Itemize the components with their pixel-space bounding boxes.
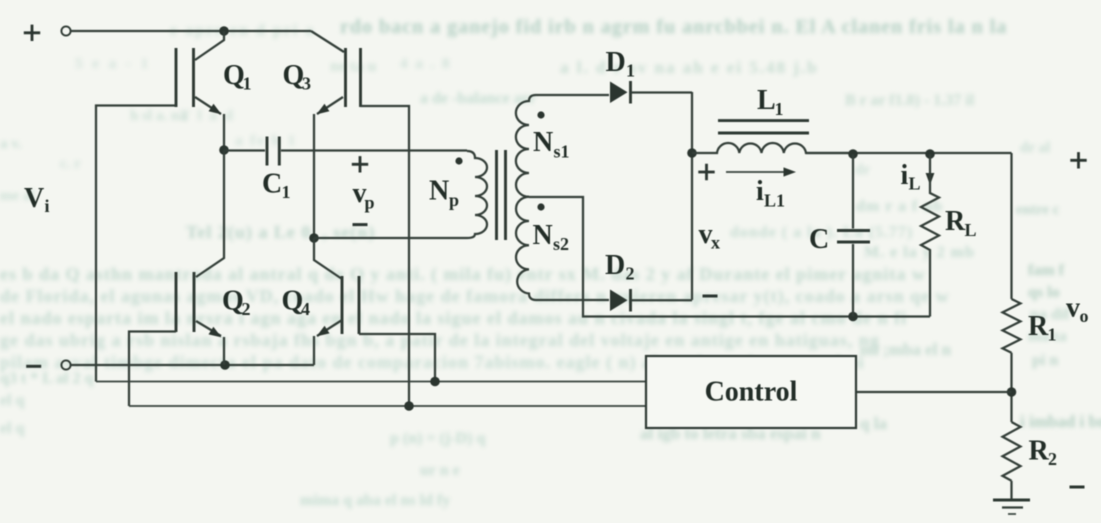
label D2 [605,250,635,284]
label Q3 [283,60,312,94]
svg-text:Q: Q [223,60,245,91]
node primary bottom junction [309,233,319,243]
label C1 [262,169,291,203]
svg-text:2: 2 [1048,449,1057,469]
svg-text:N: N [429,176,449,207]
label R1 [1028,311,1057,345]
resistor R1 [1003,299,1021,353]
svg-text:Q: Q [283,60,305,91]
label Q1 [223,60,252,94]
transformer core [497,150,506,240]
node feedback junction R1 R2 [1007,387,1017,397]
terminal input negative [61,360,70,369]
diode D2 [610,289,692,312]
wire feedback control to divider [856,391,1012,393]
wire gate lead Q4 to control line A [359,334,435,382]
svg-text:1: 1 [282,182,291,202]
wire rectifier output vertical vx [691,92,693,300]
label RL [945,206,977,240]
capacitor C [837,154,870,317]
label Np [429,176,459,211]
terminal input positive [61,26,70,35]
svg-text:L: L [909,174,921,194]
diode D1 [610,81,692,104]
resistor R2 [1003,422,1021,481]
svg-text:L1: L1 [764,191,785,211]
svg-text:3: 3 [302,74,311,94]
polarity dot Ns1 [537,111,544,118]
svg-text:N: N [533,127,553,158]
wire gate lead Q1 to control line A [96,106,176,382]
control block U1 [646,356,856,428]
wire secondary top to D1 anode [536,94,609,96]
svg-text:i: i [45,196,50,216]
wire gate lead Q2 to control line B [129,332,176,407]
label vp [353,178,375,213]
wire bottom bridge rail [71,364,314,366]
wire gate lead Q3 to control line B [361,106,410,406]
svg-text:R: R [1028,311,1049,342]
svg-text:1: 1 [243,74,252,94]
wire center tap to return rail [529,197,930,317]
svg-text:1: 1 [626,61,635,81]
node vx junction [687,148,697,158]
svg-text:L: L [757,85,776,116]
label Ns2 [533,220,570,254]
label + vx polarity [698,164,714,180]
label + input polarity top-left [24,25,40,41]
capacitor C1 [224,137,467,166]
svg-text:s2: s2 [553,234,569,254]
transistor Q2 [176,150,224,365]
wire top rail [71,30,311,32]
transformer secondary winding Ns2 [516,197,536,300]
svg-text:4: 4 [301,299,310,319]
svg-text:s1: s1 [554,142,570,162]
svg-text:C: C [809,224,829,255]
label vx [699,219,721,253]
svg-text:v: v [1066,293,1080,324]
label D1 [606,47,636,81]
label - vx polarity [703,295,718,298]
svg-text:p: p [365,193,375,213]
label R2 [1029,436,1058,470]
node load RL top [925,149,935,159]
svg-text:D: D [605,250,625,281]
svg-text:i: i [901,160,909,191]
node top rail junction [219,26,229,36]
label - vp polarity [353,223,368,226]
label Vi [24,183,50,216]
label - input polarity bottom-left [26,365,41,368]
label iL1 [756,176,785,211]
label L1 [757,85,784,119]
label Q2 [222,286,251,320]
node line B junction Q3 gate [404,401,414,411]
svg-text:Q: Q [282,286,304,317]
wire secondary bottom to D2 anode [536,299,609,301]
label vo [1066,293,1089,327]
transformer primary winding Np [467,151,487,238]
svg-text:R: R [945,206,966,237]
inductor L1 core bars [718,121,809,133]
transformer secondary winding Ns1 [516,95,536,197]
polarity dot Ns2 [537,203,544,210]
svg-text:R: R [1029,436,1050,467]
node C1 left junction [219,145,229,155]
arrow iL current [926,158,935,185]
svg-text:1: 1 [1048,325,1057,345]
node capacitor C top [848,149,858,159]
svg-text:Q: Q [222,286,244,317]
wire primary bottom lead [314,237,467,239]
node capacitor C bottom junction [848,312,858,322]
svg-text:Control: Control [705,377,798,408]
inductor L1 winding [692,143,852,153]
label Ns1 [533,127,570,162]
svg-text:C: C [262,169,282,200]
transistor Q3 [311,31,361,238]
svg-text:N: N [533,220,553,251]
transistor Q1 [176,31,224,150]
svg-text:V: V [24,183,44,214]
svg-text:o: o [1080,306,1089,326]
wire control line B [129,405,646,407]
label + output polarity [1070,152,1086,168]
wire R1 to R2 [1010,353,1012,422]
transistor Q4 [314,238,359,365]
node emitter junction Q2 Q4 [220,360,230,370]
svg-text:2: 2 [242,299,251,319]
label + vp polarity [352,156,368,172]
node line A junction Q4 gate [430,377,440,387]
label iL [901,160,921,194]
svg-text:2: 2 [626,264,635,284]
wire R2 to ground [1010,481,1012,499]
svg-text:D: D [606,47,626,78]
wire filter node to load node [806,152,1012,154]
svg-text:L: L [965,220,977,240]
label - output polarity [1070,486,1085,489]
label Q4 [282,286,311,320]
resistor RL [921,154,939,317]
svg-text:p: p [449,190,459,210]
ground [993,500,1030,514]
polarity dot primary [455,157,462,164]
svg-text:1: 1 [775,99,784,119]
wire output branch down right [1010,153,1012,299]
wire control line A [96,381,646,383]
svg-text:i: i [756,176,764,207]
svg-text:x: x [711,233,720,253]
arrow iL1 current [726,167,796,176]
